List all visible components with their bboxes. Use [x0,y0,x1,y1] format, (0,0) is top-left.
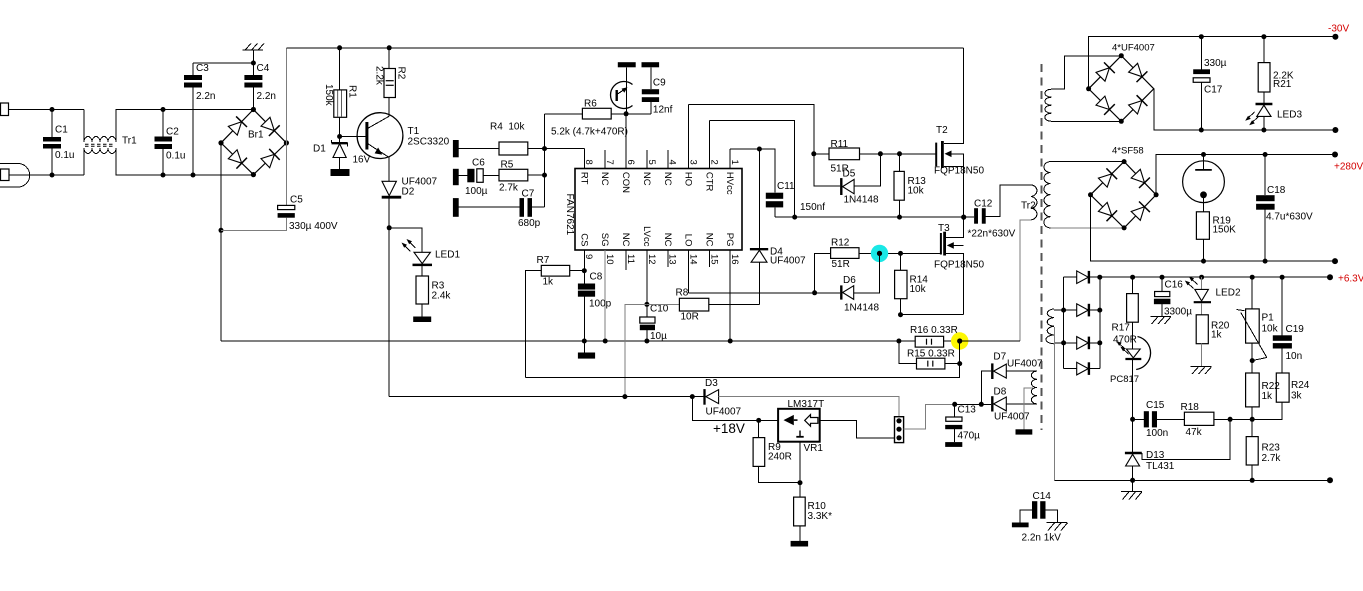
wire [1052,120,1122,122]
svg-text:9: 9 [583,254,594,259]
pin 15 NC [708,250,710,267]
diode D2 UF4007 [382,181,396,195]
svg-text:C15: C15 [1146,400,1165,411]
node [1199,34,1204,39]
svg-text:4*SF58: 4*SF58 [1112,145,1144,156]
svg-text:LED2: LED2 [1216,288,1241,299]
wire aux dc node [955,403,991,405]
svg-text:1k: 1k [1211,330,1223,341]
svg-text:15: 15 [708,254,719,265]
svg-text:R8: R8 [676,288,689,299]
svg-text:PG: PG [724,233,735,247]
svg-text:5.2k (4.7k+470R): 5.2k (4.7k+470R) [551,127,628,138]
node Br1 top [251,107,256,112]
svg-text:R5: R5 [501,159,514,170]
node [1261,128,1266,133]
svg-text:LO: LO [683,234,694,247]
svg-text:6: 6 [625,160,636,165]
wire VR1 adj [799,442,801,483]
LED D LED3 [1256,103,1273,105]
svg-text:T3: T3 [938,223,950,234]
ground bar under R10 [791,541,809,547]
node [1250,417,1255,422]
resistor R23 [1246,437,1258,465]
svg-text:2.2k: 2.2k [374,66,385,86]
node [798,480,803,485]
resistor R22 [1246,373,1260,407]
chassis ground (top) [252,50,254,63]
svg-text:R4 10k: R4 10k [490,122,525,133]
svg-text:2.2n: 2.2n [196,91,215,102]
svg-text:Tr1: Tr1 [122,136,137,147]
node [728,339,733,344]
wire T3 source return [901,314,964,316]
wire -30V top rail [1089,37,1336,89]
svg-text:R18: R18 [1181,402,1200,413]
node [1201,259,1206,264]
svg-text:C16: C16 [1165,280,1184,291]
diode D8 UF4007 [991,396,993,411]
svg-text:R7: R7 [537,255,550,266]
svg-text:10k: 10k [908,186,925,197]
capacitor C9 [642,62,660,67]
wire VR1 out [820,420,895,438]
node terminal [1327,477,1333,483]
node terminal [1332,258,1338,264]
pin 12 LVcc [646,250,648,304]
svg-text:R17: R17 [1112,323,1131,334]
wire HVcc [730,149,775,193]
bridge 4*SF58 diode lower-right [1131,207,1144,221]
svg-text:150K: 150K [1213,225,1237,236]
svg-text:R12: R12 [831,238,850,249]
svg-text:T1: T1 [408,126,420,137]
svg-text:C14: C14 [1033,491,1052,502]
terminal bar (C7 input) [453,198,459,217]
svg-text:330µ: 330µ [1204,58,1227,69]
svg-text:UF4007: UF4007 [994,412,1030,423]
node [1263,152,1268,157]
transformer Tr2 primary [1031,185,1037,220]
svg-text:4.7u*630V: 4.7u*630V [1266,212,1313,223]
svg-text:11: 11 [625,254,636,264]
highlight cyan [871,245,888,262]
svg-text:HVcc: HVcc [724,172,735,195]
resistor R18 [1184,412,1214,425]
svg-text:3k: 3k [1291,391,1303,402]
node [603,339,608,344]
node [1199,128,1204,133]
svg-text:C12: C12 [974,199,993,210]
node [952,402,957,407]
svg-text:2: 2 [708,160,719,165]
svg-text:R21: R21 [1273,79,1292,90]
node [1130,478,1135,483]
node [1199,275,1204,280]
wire opto cathode down [1132,360,1134,419]
svg-text:2SC3320: 2SC3320 [408,137,450,148]
pin 8 RT [583,149,585,169]
svg-text:C13: C13 [958,405,977,416]
node [387,45,392,50]
svg-text:SG: SG [599,233,610,247]
wire +6.3V rail [1100,276,1330,278]
ground bar under C13 [945,442,962,447]
resistor R8 [647,303,680,305]
wire [1051,227,1125,229]
svg-text:R11: R11 [831,139,849,150]
node [792,215,797,220]
svg-text:C9: C9 [653,78,666,89]
pin 9 CS [583,250,585,271]
node [1122,159,1127,164]
transistor T2 FQP18N50 [935,143,937,167]
transformer Tr2 secondary 2 (+280V) [1044,162,1051,228]
node [1201,152,1206,157]
node [542,173,547,178]
node [1250,358,1255,363]
node [1122,225,1127,230]
terminal bar (C6 input) [453,169,459,185]
tube stabilizer [1183,161,1225,203]
terminal bar (R4 input) [453,140,459,157]
diode D3 UF4007 [703,389,705,405]
resistor R15 0.33R [899,341,917,364]
node [897,151,902,156]
wire Vcc18 rail [389,396,704,398]
node [1097,340,1102,345]
diode D6 1N4148 [815,292,840,294]
node [1280,275,1285,280]
svg-text:CTR: CTR [703,172,714,192]
node [1160,275,1165,280]
Br1 diode lower-right [261,154,274,167]
svg-text:10k: 10k [910,284,927,295]
svg-text:NC: NC [599,172,610,186]
svg-text:1: 1 [729,160,740,165]
svg-text:-30V: -30V [1328,24,1349,35]
capacitor C14 [1032,501,1037,519]
wire connector mid to C13 node [904,404,955,429]
node Br1 left [218,140,223,145]
wire choke left rails [83,110,85,143]
transistor T3 FQP18N50 [940,233,942,255]
node [337,134,342,139]
regulator VR1 LM317T [692,397,778,421]
node [644,339,649,344]
svg-text:C18: C18 [1267,185,1286,196]
svg-text:2.7k: 2.7k [499,183,519,194]
transformer Tr2 aux winding [1031,371,1037,404]
wire [9,109,85,111]
svg-text:CS: CS [578,233,589,246]
node [1119,119,1124,124]
node [1250,478,1255,483]
node [961,215,966,220]
bridge 4*UF4007 diode lower-left [1096,96,1109,109]
diode D7 UF4007 [981,371,991,404]
node Br1 right [284,140,289,145]
resistor R10 [794,497,806,526]
node [896,339,901,344]
capacitor C3 [192,63,194,75]
diode D5 1N4148 [814,154,840,186]
resistor R20 [1201,303,1203,315]
resistor R5 [499,169,528,181]
svg-text:3: 3 [688,160,699,165]
node [1130,417,1135,422]
node [1228,417,1233,422]
svg-text:LED1: LED1 [435,250,460,261]
svg-text:D3: D3 [705,378,718,389]
node [811,151,816,156]
ground bar under C8 [578,353,595,359]
wire to C9 [626,113,651,115]
svg-text:7: 7 [604,160,615,165]
pin 6 CON [625,114,627,169]
node [1088,192,1093,197]
wire [459,206,520,208]
svg-text:FAN7621: FAN7621 [564,194,575,236]
capacitor C13 [954,404,956,417]
svg-text:D6: D6 [843,275,856,286]
zener D1 16V [339,137,341,144]
node [877,251,882,256]
node [161,107,166,112]
pin 3 HO [688,104,690,168]
capacitor C4 [252,63,254,75]
wire CS sense return [526,341,960,378]
resistor R3 [416,276,429,304]
wire half-bridge mid rail [775,216,964,218]
wire aux center tap [1024,388,1034,430]
rectifier stack cathode rail [1099,277,1101,368]
diode D11 UF4007 [1064,342,1077,344]
svg-text:51R: 51R [832,259,850,270]
capacitor C18 [1264,155,1266,196]
pin 10 SG [604,250,606,341]
wire rail to primary return [960,340,1020,342]
diode D12 UF4007 [1064,368,1077,370]
pin 13 NC [667,250,669,267]
node [812,290,817,295]
wire LO [689,292,815,294]
node terminal [1332,152,1338,158]
svg-text:PC817: PC817 [1110,374,1139,385]
svg-text:16V: 16V [353,155,371,166]
LED D LED1 [414,252,430,263]
node [387,225,392,230]
svg-text:100µ: 100µ [465,186,488,197]
svg-text:10: 10 [604,254,615,265]
svg-text:47k: 47k [1186,427,1203,438]
svg-text:D5: D5 [843,169,856,180]
wire C3-C4 top link [193,62,253,64]
resistor R12 [815,253,831,292]
resistor R6 [545,113,583,115]
svg-text:LVcc: LVcc [641,226,652,247]
svg-text:C3: C3 [196,63,209,74]
svg-text:+280V: +280V [1334,162,1363,173]
svg-text:C6: C6 [472,158,485,169]
pin 4 NC [667,150,669,169]
diode D9 UF4007 [1064,276,1077,278]
svg-text:2.4k: 2.4k [432,291,452,302]
bridge rectifier Br1 [221,110,286,175]
node Br1 bottom [251,172,256,177]
svg-text:LM317T: LM317T [788,399,825,410]
node [219,228,224,233]
pin 1 HVcc [729,149,731,169]
node [1263,259,1268,264]
svg-text:C5: C5 [290,195,303,206]
svg-text:C8: C8 [590,272,603,283]
choke Tr1 [84,137,116,143]
wire [459,175,468,177]
ground bar under R3 [413,317,431,323]
node terminal [1332,127,1338,133]
wire signal-ground rail [221,340,899,342]
svg-text:2.7k: 2.7k [1262,453,1282,464]
bridge 4*UF4007 diode upper-left [1096,68,1109,81]
wire CTR [709,121,794,218]
mains connector J1 (top) [1,103,9,116]
mains connector J2 (bottom, fused) [0,164,30,188]
svg-text:C2: C2 [166,127,179,138]
svg-text:100p: 100p [589,299,612,310]
svg-text:13: 13 [667,254,678,265]
svg-text:240R: 240R [768,452,792,463]
Br1 diode lower-left [228,150,241,163]
node [337,45,342,50]
node HVcc [757,147,762,152]
shunt reference D13 TL431 [1132,419,1134,453]
capacitor C15 [1133,418,1144,420]
wire HO [689,104,814,153]
connector 3-pin [895,417,904,443]
svg-text:R15 0.33R: R15 0.33R [907,349,955,360]
svg-text:10k: 10k [1262,324,1279,335]
svg-text:10n: 10n [1286,351,1303,362]
wire +280V bottom rail [1091,195,1336,261]
capacitor C8 [583,271,585,284]
resistor R17 [1132,277,1134,293]
node [957,338,962,343]
optocoupler PC817 LED [1126,349,1140,358]
svg-text:D8: D8 [994,387,1007,398]
svg-text:8: 8 [583,160,594,165]
potentiometer P1 [1251,277,1253,309]
svg-text:R1: R1 [347,85,358,98]
svg-text:C19: C19 [1286,324,1305,335]
capacitor C17 [1200,37,1202,70]
resistor R4 [499,142,528,155]
svg-text:150nf: 150nf [800,202,825,213]
capacitor C2 [162,110,164,137]
svg-text:+18V: +18V [713,421,745,436]
svg-text:TL431: TL431 [1146,461,1175,472]
svg-text:1k: 1k [1262,391,1274,402]
svg-text:C4: C4 [257,63,270,74]
svg-text:NC: NC [703,233,714,247]
chassis ground D13 [1132,480,1134,491]
svg-text:100n: 100n [1146,428,1168,439]
svg-text:12nf: 12nf [653,105,673,116]
svg-text:R6: R6 [584,99,597,110]
bridge 4*UF4007 diode upper-right [1129,63,1142,76]
svg-text:470µ: 470µ [958,431,981,442]
chassis ground C16 [1150,315,1171,317]
capacitor C10 [646,304,648,317]
svg-text:10µ: 10µ [650,331,667,342]
svg-text:2.2n 1kV: 2.2n 1kV [1022,533,1062,544]
node [1097,308,1102,313]
node [898,312,903,317]
svg-text:P1: P1 [1262,313,1275,324]
pin 2 CTR [708,121,710,169]
diode D10 UF4007 [1064,309,1077,311]
node [979,402,984,407]
svg-text:VR1: VR1 [804,443,824,454]
pin 16 PG [729,250,731,341]
svg-text:C11: C11 [777,181,795,192]
svg-text:4*UF4007: 4*UF4007 [1112,42,1155,53]
node [1086,86,1091,91]
svg-text:FQP18N50: FQP18N50 [934,260,984,271]
capacitor C16 [1161,277,1163,291]
rectifier stack anode rail [1063,277,1065,368]
bridge 4*SF58 diode upper-left [1098,174,1111,187]
pin 5 NC [646,150,648,169]
wire choke right rails [116,110,163,143]
transformer Tr2 secondary 3 (6.3V) [1046,309,1054,344]
svg-text:HO: HO [683,172,694,186]
svg-text:NC: NC [620,233,631,247]
bridge 4*SF58 [1091,162,1157,228]
transistor T1 2SC3320 [357,113,403,159]
svg-text:680p: 680p [518,218,541,229]
resistor R1 [339,48,341,90]
node [690,394,695,399]
capacitor C7 [520,198,525,217]
svg-text:470R: 470R [1113,335,1137,346]
resistor R7 [570,270,585,272]
svg-text:1N4148: 1N4148 [844,303,879,314]
wire [1051,161,1125,163]
node [191,173,196,178]
diode D4 UF4007 [758,262,760,304]
svg-text:*22n*630V: *22n*630V [968,229,1016,240]
transformer Tr2 secondary 1 (-30V) [1045,89,1052,121]
node [878,151,883,156]
svg-text:2.2n: 2.2n [257,91,276,102]
node [957,361,962,366]
wire 6.3V ground rail [1055,479,1331,481]
ground bar C14 left [1012,523,1029,528]
wire DC plus vertical [285,48,287,206]
svg-text:D13: D13 [1146,450,1165,461]
svg-text:C7: C7 [522,189,535,200]
node [582,268,587,273]
capacitor C1 [51,110,53,138]
capacitor C11 [766,193,783,199]
ground bar under D1 [331,169,350,176]
svg-text:1k: 1k [543,277,555,288]
wire LVcc feed [625,304,647,396]
capacitor C5 [278,205,295,209]
bridge 4*UF4007 diode lower-right [1129,101,1142,114]
svg-text:D7: D7 [993,352,1006,363]
